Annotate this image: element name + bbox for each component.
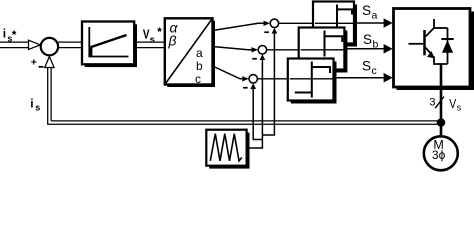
wire: node b to hysteresis comparator b xyxy=(267,49,299,51)
wire: carrier to node c (vertical) with arrowhead xyxy=(252,89,254,140)
gate lead xyxy=(409,43,424,45)
svg-text:3: 3 xyxy=(429,96,435,108)
wire: carrier branch connectors xyxy=(253,139,263,141)
hysteresis comparator block b (with shadow) xyxy=(299,28,348,73)
label - xyxy=(39,66,44,68)
svg-text:i: i xyxy=(3,27,6,41)
wire: S_c gate signal to inverter with arrowhead xyxy=(337,77,385,79)
svg-text:c: c xyxy=(195,72,201,86)
wire: node c to hysteresis comparator c xyxy=(257,78,287,80)
svg-text:b: b xyxy=(196,59,203,73)
wire: summing junction to PI controller (double line) xyxy=(58,42,82,48)
svg-text:s: s xyxy=(150,35,155,46)
label V_s xyxy=(449,98,462,112)
svg-text:S: S xyxy=(363,32,372,47)
wire: carrier to node b (vertical) with arrowhead xyxy=(261,60,263,149)
svg-text:s: s xyxy=(457,103,462,113)
IGBT emitter arrowhead xyxy=(427,51,434,58)
svg-text:s: s xyxy=(35,103,40,113)
svg-text:V: V xyxy=(449,98,456,111)
svg-text:S: S xyxy=(362,59,371,74)
wire: inverter output to motor xyxy=(440,64,443,138)
svg-text:b: b xyxy=(373,39,379,51)
top rail to diode xyxy=(433,27,447,29)
emitter vertical and bottom rail xyxy=(434,57,448,65)
svg-text:c: c xyxy=(372,65,377,77)
svg-text:i: i xyxy=(30,96,33,110)
coordinate transform block U2: alpha-beta to abc xyxy=(165,18,215,87)
wire: i_s* input double line xyxy=(0,42,29,48)
phase slash mark xyxy=(435,97,444,109)
label i_s (measured current) xyxy=(30,96,40,112)
summing node a (circle) xyxy=(270,19,278,27)
label S_a xyxy=(362,3,378,21)
svg-text:a: a xyxy=(372,9,378,21)
junction node (current measurement tap) xyxy=(437,118,446,127)
emitter slant xyxy=(426,48,434,58)
wire: feedback vertical double line with open arrowhead xyxy=(48,67,51,124)
label S_c xyxy=(362,59,377,77)
motor M 3phi xyxy=(424,136,458,170)
label - at node b xyxy=(252,58,257,60)
freewheeling diode D1 xyxy=(441,28,453,64)
gate bar xyxy=(423,30,426,55)
inverter block U4 (with shadow) xyxy=(394,9,474,91)
summing junction node (i_s* minus i_s) xyxy=(41,38,58,55)
collector stub xyxy=(433,19,435,29)
collector slant xyxy=(426,28,434,37)
PI symbol axes xyxy=(89,27,128,57)
label i_s* (reference current input) xyxy=(3,27,17,44)
wire: PI to transform block (double line) xyxy=(134,42,165,48)
svg-text:β: β xyxy=(168,33,177,49)
open arrowhead into summing junction xyxy=(29,40,41,49)
label - at node c xyxy=(243,87,248,89)
label v_s* (voltage reference) xyxy=(143,27,162,46)
summing node b (circle) xyxy=(258,46,266,54)
wire: feedback horizontal double line xyxy=(47,121,438,124)
label - at node a xyxy=(264,31,269,33)
summing node c (circle) xyxy=(249,75,257,83)
triangle waveform xyxy=(210,134,242,161)
wire: phase c reference to summing node c xyxy=(213,66,243,79)
hysteresis comparator block a (with shadow) xyxy=(313,2,357,47)
wire: carrier to node a (vertical) with arrowhead xyxy=(273,33,275,135)
svg-text:3ϕ: 3ϕ xyxy=(432,148,446,162)
svg-text:+: + xyxy=(31,56,37,68)
triangle carrier generator block U3 (with shadow) xyxy=(206,130,249,169)
IGBT Q1 inside inverter xyxy=(409,19,448,64)
hysteresis comparator block c (with shadow) xyxy=(288,59,337,104)
svg-text:a: a xyxy=(196,46,203,60)
wire: phase b reference to summing node b xyxy=(213,47,252,50)
PI controller block U1 (with shadow) xyxy=(82,22,137,68)
svg-text:S: S xyxy=(362,3,371,18)
wire: phase a reference to summing node a xyxy=(213,23,264,30)
wire: S_a gate signal to inverter with arrowhead xyxy=(354,22,384,24)
wire: node a to hysteresis comparator a xyxy=(279,22,313,24)
label S_b xyxy=(363,32,379,50)
wire: S_b gate signal to inverter with arrowhead xyxy=(347,48,384,50)
PI symbol step+ramp curve xyxy=(91,35,126,57)
